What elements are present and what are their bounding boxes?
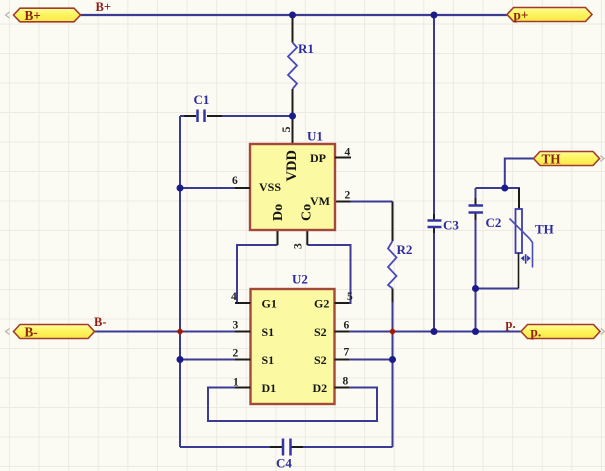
wire VSS pin 6	[180, 187, 235, 189]
U2 pin name G1	[262, 297, 277, 311]
svg-text:B-: B-	[25, 325, 38, 340]
junction dot S1 pin2	[177, 356, 184, 363]
resistor R1	[288, 15, 297, 144]
U2 pin name S1 row1	[262, 325, 275, 339]
svg-text:p.: p.	[506, 317, 516, 331]
U2 right pin stubs	[335, 303, 350, 388]
svg-text:5: 5	[347, 291, 353, 303]
junction dot TH bottom	[472, 285, 479, 292]
U1 pin name VM	[310, 194, 330, 208]
U2 pin number 5	[347, 291, 353, 303]
wire Co to G2	[307, 231, 350, 304]
U2 pin name S2 row1	[314, 325, 327, 339]
wire left vertical net x=180	[179, 116, 181, 447]
wire D1-D2 loop	[208, 388, 377, 422]
junction dot C2 bottom	[472, 328, 479, 335]
wire C3 vertical net	[433, 15, 435, 332]
svg-text:6: 6	[344, 320, 350, 332]
designator R2	[397, 242, 413, 257]
op-amp U1 protection IC body	[250, 144, 335, 230]
port p-	[521, 325, 605, 340]
svg-text:2: 2	[233, 348, 239, 360]
svg-text:3: 3	[233, 320, 239, 332]
svg-text:B+: B+	[25, 8, 41, 23]
wire TH bottom to C2 line	[476, 288, 519, 290]
svg-text:S2: S2	[314, 325, 327, 339]
U1 pin number 3	[293, 243, 305, 249]
designator C1	[194, 92, 210, 107]
svg-text:R1: R1	[298, 41, 314, 56]
U2 pin number 7	[344, 347, 350, 359]
wire C2 branch	[475, 188, 477, 332]
U1 pin name Co	[300, 204, 315, 221]
U2 pin number 6	[344, 320, 350, 332]
junction red B- cross right	[389, 328, 396, 335]
svg-text:p.: p.	[531, 325, 542, 340]
port B+	[6, 8, 81, 23]
svg-text:S1: S1	[262, 325, 275, 339]
U2 left pin stubs	[235, 303, 251, 388]
U1 pin number 4	[345, 147, 351, 159]
U1 pin 6 stub	[235, 187, 250, 189]
designator C2	[486, 215, 502, 230]
capacitor C2	[469, 206, 484, 213]
designator C4	[276, 456, 292, 471]
svg-text:1: 1	[233, 377, 239, 389]
thermistor TH	[510, 188, 533, 289]
net label B+	[96, 0, 111, 14]
designator R1	[298, 41, 314, 56]
svg-text:D2: D2	[313, 381, 328, 395]
wire B- to S1 pin3	[93, 331, 251, 333]
port TH	[534, 151, 605, 166]
svg-text:TH: TH	[535, 222, 554, 237]
svg-text:C3: C3	[443, 218, 459, 233]
svg-text:2: 2	[345, 190, 351, 202]
svg-text:U2: U2	[292, 272, 308, 287]
svg-text:G1: G1	[262, 297, 277, 311]
U2 pin name S1 row2	[262, 353, 275, 367]
U1 pin name VSS	[259, 180, 281, 194]
U2 pin name S2 row2	[314, 353, 327, 367]
wire TH port to junction	[505, 159, 534, 189]
svg-text:S2: S2	[314, 353, 327, 367]
junction dot TH top	[501, 185, 508, 192]
svg-text:Co: Co	[300, 204, 315, 221]
wire Do to G1	[237, 231, 278, 304]
svg-text:C1: C1	[194, 92, 210, 107]
svg-text:D1: D1	[262, 381, 277, 395]
wire C2/TH top	[476, 187, 521, 189]
wire R2 vertical net x=392.5	[392, 302, 394, 447]
junction dot VSS	[177, 185, 184, 192]
junction dot top C3	[431, 12, 438, 19]
resistor R2	[388, 202, 397, 303]
svg-text:G2: G2	[314, 297, 329, 311]
wire C1 branch	[180, 115, 293, 117]
svg-text:TH: TH	[542, 151, 562, 166]
U2 pin number 1	[233, 377, 239, 389]
junction dot C1/R1	[289, 113, 296, 120]
svg-text:DP: DP	[310, 151, 326, 165]
svg-text:C4: C4	[276, 456, 292, 471]
wire VM pin 2 to R2	[335, 201, 393, 203]
junction dot C3 bottom	[431, 328, 438, 335]
svg-text:Do: Do	[271, 204, 286, 221]
U2 pin number 4	[231, 291, 237, 303]
svg-text:6: 6	[232, 175, 238, 187]
U1 pin number 2	[345, 190, 351, 202]
svg-text:B-: B-	[94, 315, 107, 329]
svg-text:7: 7	[344, 347, 350, 359]
wire S2 pin6 to p-	[335, 331, 522, 333]
U2 pin number 8	[343, 376, 349, 388]
svg-text:4: 4	[345, 147, 351, 159]
junction red B- cross left	[176, 328, 183, 335]
svg-text:VDD: VDD	[284, 150, 300, 181]
designator C3	[443, 218, 459, 233]
net label p-	[506, 317, 516, 331]
svg-text:5: 5	[279, 127, 293, 133]
U1 pin name Do	[271, 204, 286, 221]
junction dot S2 pin7	[389, 356, 396, 363]
capacitor C1	[198, 110, 205, 123]
U2 pin name G2	[314, 297, 329, 311]
svg-text:U1: U1	[307, 129, 323, 144]
U1 pin name DP	[310, 151, 326, 165]
U2 pin number 2	[233, 348, 239, 360]
svg-text:VSS: VSS	[259, 180, 281, 194]
designator U2	[292, 272, 308, 287]
wire B+ to p+ top rail	[80, 14, 507, 16]
svg-text:S1: S1	[262, 353, 275, 367]
designator TH	[535, 222, 554, 237]
capacitor C4	[283, 439, 291, 456]
port p+	[507, 8, 592, 23]
designator U1	[307, 129, 323, 144]
U1 pin name VDD	[284, 150, 300, 181]
U1 pin number 6	[232, 175, 238, 187]
svg-text:C2: C2	[486, 215, 502, 230]
svg-text:8: 8	[343, 376, 349, 388]
capacitor C3	[428, 221, 442, 228]
U2 pin name D1	[262, 381, 277, 395]
svg-text:R2: R2	[397, 242, 413, 257]
svg-text:3: 3	[293, 243, 305, 249]
wire S1 pin2	[180, 359, 251, 361]
svg-text:B+: B+	[96, 0, 111, 14]
wire C4 bottom net	[180, 446, 393, 448]
svg-text:4: 4	[231, 291, 237, 303]
svg-text:p+: p+	[514, 8, 529, 23]
port B-	[6, 325, 95, 340]
U2 pin name D2	[313, 381, 328, 395]
U1 pin 4 stub	[335, 157, 351, 159]
transistor U2 dual mosfet body	[251, 289, 335, 404]
net label B-	[94, 315, 107, 329]
junction dot top R1	[289, 12, 296, 19]
wire S2 pin7	[335, 359, 393, 361]
U2 pin number 3	[233, 320, 239, 332]
U1 pin number 5	[279, 127, 293, 133]
